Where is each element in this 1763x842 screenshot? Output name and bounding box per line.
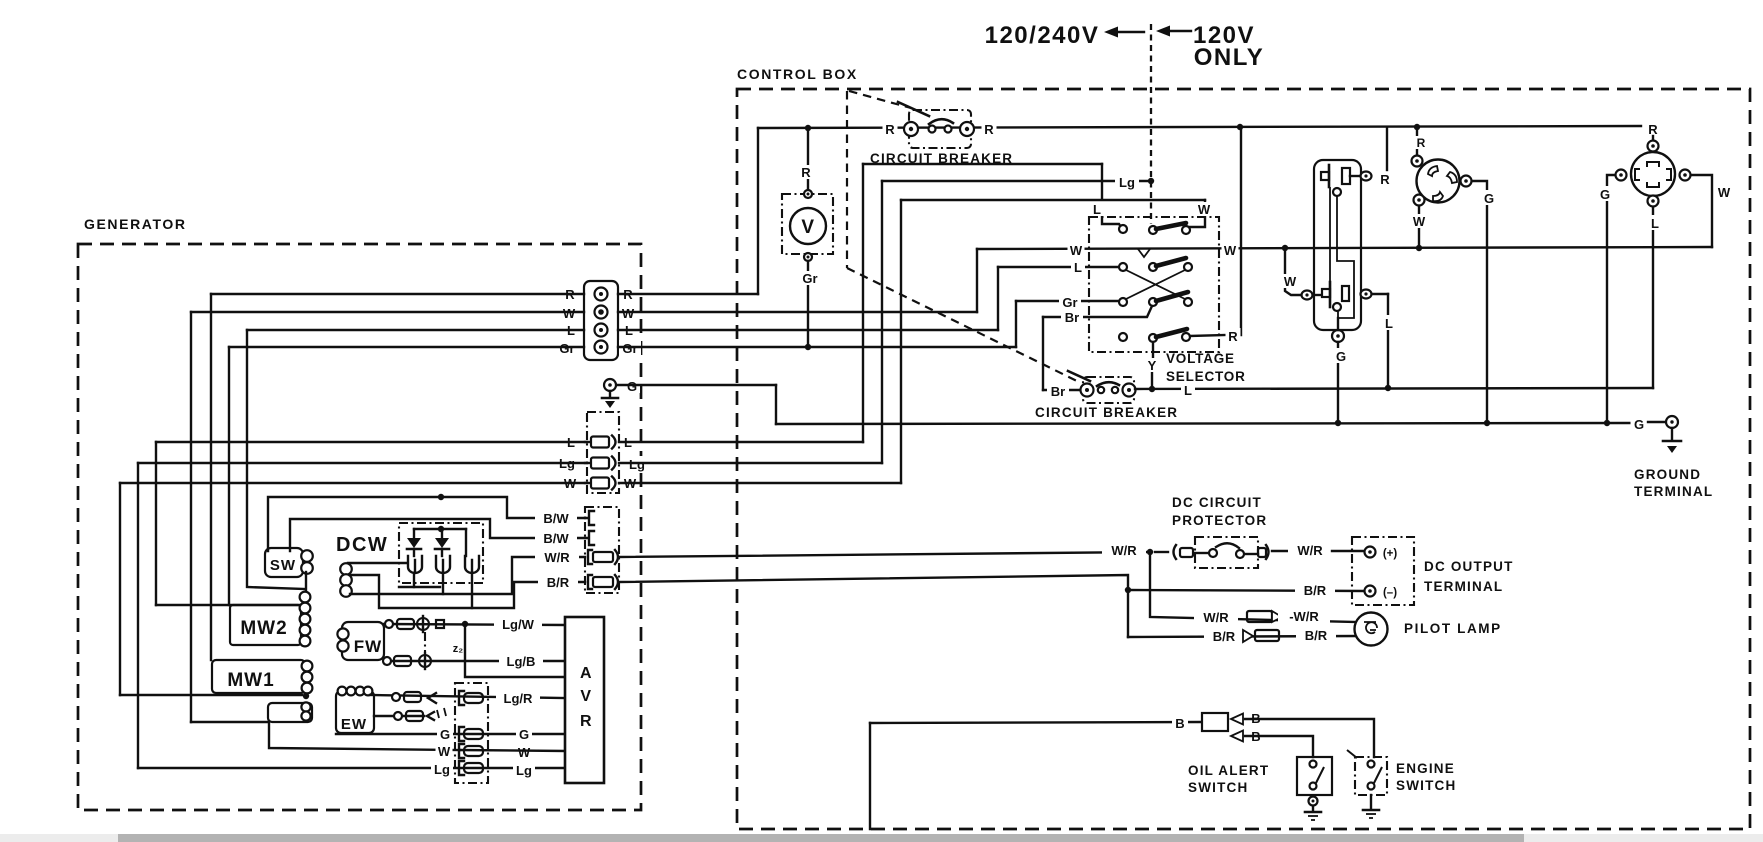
connector CN4 pin W (459, 744, 483, 758)
terminal block TB1 (R W L Gr) (584, 281, 618, 360)
winding MW1 (212, 660, 305, 693)
label W (AVR right) (516, 744, 533, 760)
svg-text:Br: Br (1051, 384, 1065, 399)
dc output terminal (+) (1365, 547, 1376, 558)
label W (left of CN1) (562, 475, 579, 491)
receptacle J1 upper slot left (1321, 165, 1329, 187)
svg-text:G: G (440, 727, 450, 742)
svg-text:L: L (1074, 260, 1082, 275)
selector S1 row3 pivot (1149, 298, 1157, 306)
svg-text:L: L (1093, 202, 1101, 217)
wire G from J3 (1607, 175, 1615, 423)
wire net L left riser to MW2 (247, 330, 305, 589)
wire net L2 riser (862, 164, 864, 442)
junction W/R (1147, 549, 1153, 555)
label L (left of CN1) (564, 434, 578, 450)
label W (selector right) (1222, 242, 1239, 258)
scrollbar track (0, 834, 1763, 842)
wire net Lg2 (CN1 to corner) (619, 462, 882, 464)
wire net L2 feeder (to MW2) (156, 604, 300, 606)
junction Gr/voltmeter (805, 344, 811, 350)
connector block CN3 (B/W W/R B/R) (585, 507, 619, 593)
svg-text:B/R: B/R (1304, 583, 1327, 598)
svg-text:G: G (1600, 187, 1610, 202)
wire net R (TB1 to riser) (618, 293, 758, 295)
selector S1 row2 contact b (1184, 263, 1192, 271)
svg-text:W/R: W/R (1203, 610, 1229, 625)
label Lg (AVR left) (431, 761, 453, 777)
wire DCW pin1 stub (399, 573, 440, 587)
svg-text:Lg: Lg (434, 762, 450, 777)
winding MW2 coil (300, 592, 311, 647)
svg-text:W: W (1070, 243, 1083, 258)
wire net Gr left riser to MW2 (228, 347, 230, 605)
svg-text:CIRCUIT BREAKER: CIRCUIT BREAKER (870, 151, 1013, 166)
receptacle J1 terminal L (1361, 290, 1389, 299)
connector EW row1 (392, 692, 436, 703)
connector block CN4 (455, 683, 488, 783)
junction L/Y (1149, 386, 1155, 392)
svg-text:TERMINAL: TERMINAL (1424, 579, 1503, 594)
wire net W row to AVR (460, 750, 565, 751)
control box enclosure (dashed boundary) (737, 89, 1750, 829)
label Gr (left of TB1) (556, 340, 578, 356)
wire net B/W 1 (268, 497, 585, 551)
wire R stub to J2 (1416, 127, 1418, 155)
junction R/voltmeter (805, 125, 811, 131)
label L (right of CN1) (621, 434, 635, 450)
svg-text:TERMINAL: TERMINAL (1634, 484, 1713, 499)
wire net W left riser to MW1 (190, 312, 192, 722)
label B/W (row2) (535, 530, 577, 546)
wire net W2 riser (900, 200, 902, 483)
wire L to J1 (1387, 294, 1389, 388)
wire net Lg/R (EW row1) (370, 695, 565, 698)
label z2 (450, 641, 466, 655)
connector DCW pin3 (465, 556, 479, 573)
wire W from J3 (1691, 175, 1712, 247)
receptacle J3 terminal L (1648, 196, 1659, 207)
winding DCW coil (340, 563, 352, 597)
connector B/W 1 (585, 511, 594, 525)
wire voltmeter feed (R) (807, 128, 809, 194)
svg-text:Lg: Lg (629, 457, 645, 472)
label G (AVR right) (516, 726, 532, 742)
label R (J2) (1414, 136, 1428, 150)
svg-text:Lg: Lg (1119, 175, 1135, 190)
wire EW row2 (374, 715, 424, 717)
svg-text:Lg/R: Lg/R (504, 691, 533, 706)
label G (generator ground) (624, 378, 640, 394)
junction Lg2/120V line (1148, 178, 1154, 184)
arrow to 120/240V (1104, 27, 1144, 38)
dc circuit protector CP1 connector out (1258, 545, 1290, 559)
svg-text:CIRCUIT BREAKER: CIRCUIT BREAKER (1035, 405, 1178, 420)
selector S1 row1 blade (1156, 223, 1186, 229)
junction R/selector drop (1237, 124, 1243, 130)
wire net Y (selector common) (1152, 342, 1153, 390)
selector S1 row2 blade (1156, 258, 1186, 266)
wire B to oil alert switch (1245, 736, 1313, 757)
label G (J1) (1333, 348, 1349, 364)
generator enclosure (dashed boundary) (78, 244, 641, 810)
wire net R to MW1 (210, 294, 212, 660)
terminal TB1-R (595, 288, 608, 301)
mechanical link riser (dashed) (846, 91, 848, 268)
winding MW1 coil (302, 661, 313, 694)
wire B/R to pilot lamp (1128, 636, 1357, 637)
svg-text:SW: SW (270, 557, 296, 574)
svg-text:ENGINE: ENGINE (1396, 761, 1455, 776)
voltage selector S1 enclosure (1089, 217, 1219, 352)
wire net G bus (776, 423, 1630, 424)
selector S1 row4 contact a (1119, 333, 1127, 341)
wire net L2 drop to selector row1 (1102, 164, 1121, 227)
circuit breaker CB2 contact left (1098, 387, 1104, 393)
pilot lamp PL1 (1355, 613, 1388, 646)
svg-text:Gr: Gr (559, 341, 574, 356)
wire net L to selector (998, 266, 1119, 268)
junction L2/MW2 coil (303, 603, 309, 609)
connector CN1-W (585, 477, 616, 490)
wire net W/R (generator to DC) (619, 552, 1150, 557)
receptacle J1 upper ground pin (1333, 188, 1341, 196)
svg-text:W: W (1284, 274, 1297, 289)
circuit breaker CB2 contact arc (1097, 382, 1119, 386)
mechanical link FW plugs (dash-dot) (424, 632, 426, 652)
label L (CB2 out) (1181, 382, 1195, 398)
svg-text:V: V (580, 688, 591, 705)
wire net G (EW to AVR) (336, 733, 565, 735)
wire net B (engine harness) (870, 722, 1200, 829)
label Y (1145, 358, 1159, 373)
svg-text:L: L (1651, 216, 1659, 231)
circuit breaker CB2 lever (1068, 371, 1090, 381)
wire net R riser (757, 128, 759, 294)
svg-text:A: A (580, 665, 592, 682)
label R (J1) (1378, 172, 1393, 187)
svg-text:W: W (622, 306, 635, 321)
selector S1 row3 blade (1156, 292, 1188, 301)
connector FW row2 (383, 656, 411, 666)
label Gr (voltmeter) (800, 271, 820, 286)
receptacle J2 terminal W (1414, 195, 1425, 206)
label W (J1) (1282, 274, 1299, 289)
voltmeter M1 (790, 208, 826, 244)
svg-text:SELECTOR: SELECTOR (1166, 369, 1246, 384)
voltmeter M1 terminal top (804, 190, 812, 198)
wire net G (terminal to corner) (617, 384, 776, 386)
label R (CB1 right) (982, 122, 997, 137)
winding FW (337, 622, 384, 660)
svg-text:DC CIRCUIT: DC CIRCUIT (1172, 495, 1262, 510)
wire SW8 to MW2 coil link (305, 572, 307, 592)
wire B to engine switch (1245, 719, 1374, 757)
wire net Br (selector) (1043, 306, 1152, 317)
label B/W (row1) (535, 510, 577, 526)
wire G from J2 (1472, 181, 1487, 423)
wire net W2 top run (901, 199, 1205, 201)
wire net Lg2 left riser (137, 463, 139, 768)
diode D2 (435, 529, 449, 556)
wire selector row4 to R (1190, 335, 1226, 336)
wire net W2 left riser (119, 483, 121, 695)
svg-text:Lg/B: Lg/B (507, 654, 536, 669)
wire voltmeter to Gr (807, 261, 809, 347)
selector S1 crossover links (1126, 270, 1185, 299)
pilot lamp connector (B/R) (1243, 630, 1279, 642)
connector CN4 pin G (459, 727, 483, 741)
wire net B/W 2 (290, 519, 585, 551)
connector DCW pin2 (436, 556, 450, 573)
wire W from J2 (1418, 206, 1420, 248)
wire net W2 (CN1 to corner) (619, 482, 901, 484)
wire net L2 top run to selector (863, 163, 1102, 165)
svg-text:Lg/W: Lg/W (502, 617, 534, 632)
wire net R drop to selector (1240, 127, 1242, 335)
wire net W2 drop to selector row1 (1187, 200, 1205, 229)
winding EW (336, 687, 374, 733)
connector B/W 2 (585, 531, 594, 545)
label W (right of TB1) (620, 305, 637, 321)
receptacle J1 lower slot right (1342, 286, 1349, 301)
receptacle J1 upper slot right (1342, 168, 1350, 184)
svg-text:B/W: B/W (543, 511, 569, 526)
wire R stub to J1 (1386, 127, 1388, 170)
svg-text:ONLY: ONLY (1194, 44, 1264, 71)
wire Lg/W tap to AVR (465, 624, 565, 677)
circuit breaker CB2 enclosure (1083, 377, 1134, 403)
rectifier DCW enclosure (399, 523, 483, 583)
wire net Gr to selector (1016, 300, 1119, 302)
ground symbol (oil alert) (1305, 806, 1321, 820)
junction L/duplex J1 (1385, 385, 1391, 391)
dc circuit protector CP1 connector in (1155, 545, 1193, 559)
winding SW8 (265, 548, 313, 577)
arrow to 120V side (1156, 26, 1191, 37)
receptacle J1 terminal W (1302, 291, 1322, 300)
svg-text:L: L (1385, 316, 1393, 331)
svg-text:GENERATOR: GENERATOR (84, 216, 187, 232)
svg-text:G: G (1634, 417, 1644, 432)
engine switch S3 body (1355, 757, 1387, 795)
label G (J3) (1597, 186, 1613, 202)
label W/R (pilot row left) (1194, 609, 1238, 625)
connector CN2 diode arrow top (1231, 714, 1243, 725)
selector S1 row4 pivot (1149, 334, 1157, 342)
selector S1 row1 contact a (1119, 225, 1127, 233)
connector FW row1 (385, 619, 414, 629)
connector CN2 (B) (1202, 713, 1228, 731)
wire net L2 (CN1 left run) (156, 441, 587, 443)
label W/R (generator) (535, 549, 579, 565)
svg-text:(+): (+) (1383, 548, 1398, 560)
receptacle J3 terminal G (1616, 170, 1627, 181)
svg-text:W: W (1413, 214, 1426, 229)
svg-text:R: R (984, 122, 994, 137)
wire net W bus (977, 247, 1712, 249)
svg-text:R: R (885, 122, 895, 137)
junction R/receptacle J2 (1414, 124, 1420, 130)
label Br (CB2) (1047, 383, 1069, 399)
label G (J2) (1481, 190, 1497, 206)
selector S1 row3 contact a (1119, 298, 1127, 306)
connector CN2 diode arrow bottom (1231, 731, 1243, 742)
ground terminal on generator frame (604, 379, 616, 391)
engine switch S3 contacts (1368, 761, 1383, 790)
wire G to J1 (1337, 318, 1339, 423)
junction G/duplex J1 (1335, 420, 1341, 426)
svg-text:DCW: DCW (336, 534, 388, 556)
oil alert switch S2 terminal (1309, 797, 1318, 806)
circuit breaker CB1 terminal right (960, 122, 974, 136)
svg-text:W: W (438, 744, 451, 759)
svg-text:(–): (–) (1383, 587, 1397, 599)
wire net Lg2 top run (882, 180, 1151, 182)
connector W/R (generator) (588, 550, 618, 564)
receptacle J1 body (1314, 160, 1361, 330)
svg-text:G: G (519, 727, 529, 742)
svg-text:R: R (1417, 136, 1426, 150)
connector B/R (generator) (588, 575, 618, 589)
wire DCW coil top (348, 562, 406, 564)
label L (left of TB1) (564, 322, 578, 338)
voltage regulator AVR (565, 617, 604, 783)
label L (J1) (1382, 315, 1396, 331)
receptacle J2 body (1417, 160, 1460, 203)
wire net L (TB1 to corner) (618, 329, 998, 331)
svg-text:GROUND: GROUND (1634, 467, 1701, 482)
svg-text:B/W: B/W (543, 531, 569, 546)
connector block CN1 (L Lg W) (587, 412, 619, 493)
ground symbol (engine switch) (1363, 795, 1379, 818)
junction W/receptacle J2 (1416, 245, 1422, 251)
label R (left of TB1) (562, 286, 578, 302)
svg-text:PROTECTOR: PROTECTOR (1172, 513, 1267, 528)
svg-text:Br: Br (1065, 310, 1079, 325)
junction B/R (1125, 587, 1131, 593)
wire net G drop (775, 385, 777, 424)
junction Lg/W (462, 621, 468, 627)
svg-text:CONTROL BOX: CONTROL BOX (737, 66, 858, 82)
label Lg (selector feed) (1115, 174, 1139, 190)
svg-text:R: R (1648, 122, 1658, 137)
svg-text:W: W (1198, 202, 1211, 217)
selector S1 row3 contact b (1184, 298, 1192, 306)
connector DCW pin1 (408, 556, 422, 573)
svg-text:EW: EW (341, 716, 367, 733)
svg-text:Gr: Gr (802, 271, 817, 286)
svg-text:OIL ALERT: OIL ALERT (1188, 763, 1269, 778)
svg-text:R: R (580, 713, 592, 730)
label Lg (left of CN1) (556, 455, 578, 471)
label Lg/W (494, 616, 542, 632)
label B (to engine switch) (1248, 710, 1264, 726)
wire DCW bus drop (465, 529, 467, 556)
svg-text:R: R (1380, 172, 1390, 187)
svg-text:FW: FW (354, 637, 382, 656)
connector CN4 pin Lg (459, 761, 483, 775)
label Br (selector left) (1061, 309, 1083, 325)
svg-text:MW1: MW1 (227, 670, 274, 691)
oil alert switch S2 body (1297, 757, 1332, 795)
label W (selector left) (1068, 242, 1085, 258)
wire net R bus (CB1 row) (758, 126, 1641, 128)
mechanical link CB1 (dashed diagonal) (849, 91, 911, 108)
receptacle J1 terminal G (1332, 330, 1344, 342)
winding MW2 (230, 605, 301, 645)
dc circuit protector CP1 enclosure (1195, 537, 1258, 568)
label W (left of TB1) (561, 305, 578, 321)
junction W/duplex J1 (1282, 245, 1288, 251)
svg-text:W/R: W/R (1111, 543, 1137, 558)
wire net W riser (976, 249, 978, 312)
svg-text:W: W (563, 306, 576, 321)
label Gr (right of TB1) (619, 340, 641, 356)
wire DCW pin3 stub (471, 573, 473, 608)
junction G/receptacle J2 (1484, 420, 1490, 426)
receptacle J3 terminal R (1648, 136, 1659, 152)
wire net Gr riser (1015, 301, 1017, 347)
circuit breaker CB1 lever (898, 102, 929, 116)
diode D1 (407, 529, 421, 556)
circuit breaker CB1 terminal left (904, 122, 918, 136)
label W/R (pilot row right) (1278, 608, 1330, 624)
oil alert switch S2 contacts (1310, 761, 1325, 790)
label B/R (pilot row left) (1204, 628, 1244, 644)
label W/R (left of protector) (1102, 542, 1146, 558)
connector EW row2 (394, 708, 446, 721)
svg-text:R: R (1228, 329, 1238, 344)
label W (selector top feed) (1196, 202, 1213, 217)
connector FW row1 plug (417, 616, 429, 632)
label L (J3) (1648, 215, 1662, 231)
svg-text:L: L (1184, 383, 1192, 398)
circuit breaker CB2 contact right (1112, 387, 1118, 393)
junction G/receptacle J3 (1604, 420, 1610, 426)
label G (AVR left) (437, 726, 453, 742)
label Lg/R (496, 690, 540, 706)
wire net B/R (generator to DC) (619, 575, 1128, 637)
wire net Lg/B (FW row2) (384, 660, 565, 662)
svg-text:B: B (1175, 716, 1184, 731)
svg-text:SWITCH: SWITCH (1396, 778, 1456, 793)
wire DCW coil mid to B/R (350, 575, 585, 608)
receptacle J2 slots (1428, 166, 1457, 201)
svg-text:z₂: z₂ (453, 643, 464, 655)
connector FW row1 socket (436, 620, 444, 628)
label B/R (pilot row right) (1296, 627, 1336, 643)
wire G to ground terminal (1648, 421, 1664, 423)
circuit breaker CB1 contact left (929, 126, 936, 133)
wire DCW coil bottom to W/R (350, 557, 585, 594)
svg-text:120/240V: 120/240V (985, 22, 1100, 49)
connector CN1-L (585, 436, 616, 449)
svg-text:DC OUTPUT: DC OUTPUT (1424, 559, 1514, 574)
wire net Lg row to AVR (138, 767, 565, 769)
wire W to J1 (1285, 248, 1301, 295)
connector CN1-Lg (585, 457, 616, 470)
receptacle J3 terminal W (1680, 170, 1691, 181)
circuit breaker CB1 contact arc (929, 119, 953, 124)
wire W2 feeder to MW1 coil (120, 694, 302, 696)
selector S1 row1 contact b (1182, 226, 1190, 234)
svg-text:PILOT LAMP: PILOT LAMP (1404, 621, 1502, 636)
winding MW1 sub-coil (268, 702, 312, 722)
label Lg/B (499, 653, 543, 669)
wire net Lg/W (FW row1) (384, 624, 565, 625)
wire W/R to DC output (1332, 550, 1364, 552)
